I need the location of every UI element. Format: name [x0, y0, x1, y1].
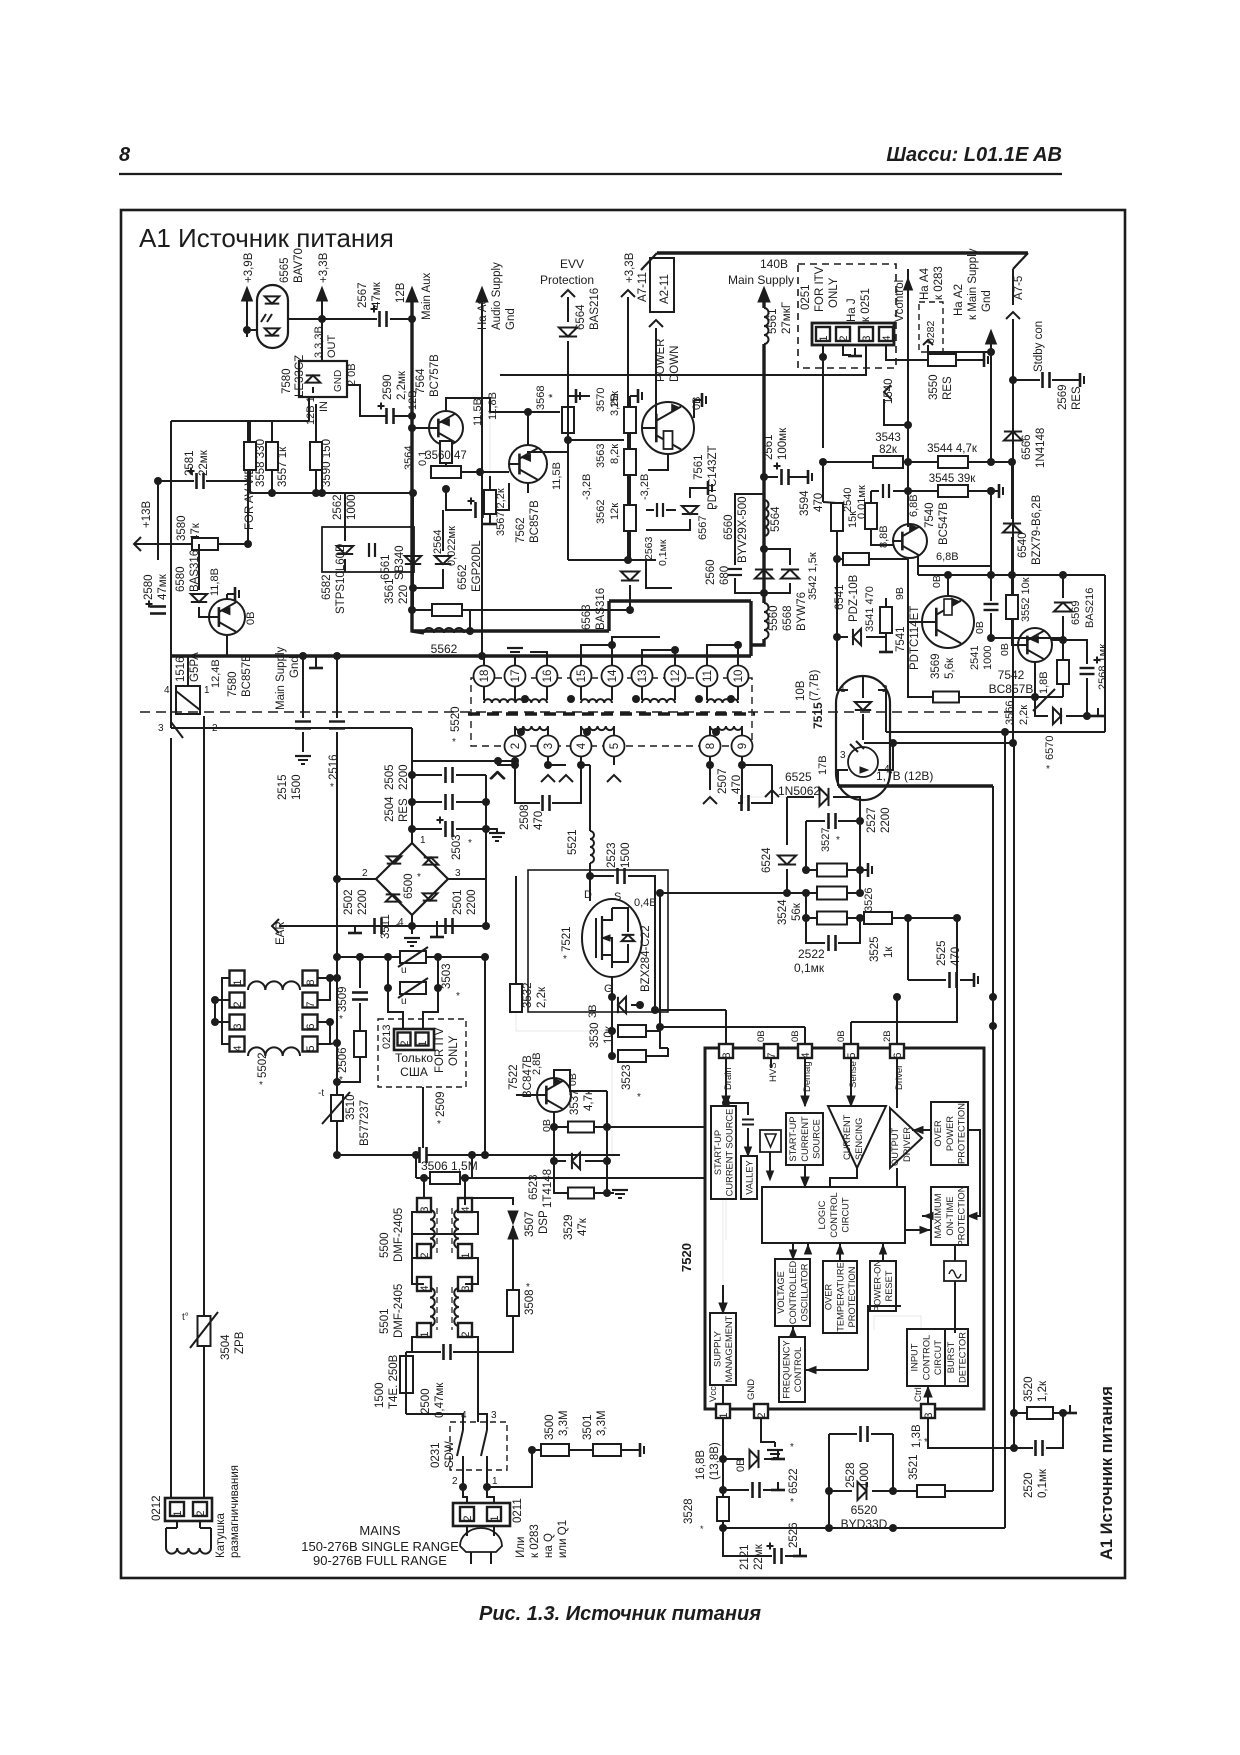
svg-text:7562: 7562	[515, 517, 527, 543]
thermistor 3504 ZPB	[198, 1316, 211, 1346]
svg-text:2: 2	[838, 335, 850, 341]
svg-text:Main Supply: Main Supply	[275, 646, 287, 710]
svg-text:LOGIC: LOGIC	[817, 1200, 827, 1229]
capacitor 2522 0,1mk	[806, 918, 825, 943]
svg-text:100мк: 100мк	[777, 427, 789, 460]
diode 6564 BAS216	[567, 297, 569, 322]
transformer core dashed bar	[468, 712, 755, 715]
svg-text:7564: 7564	[415, 368, 427, 394]
svg-text:Т4Е. 250В: Т4Е. 250В	[388, 1354, 400, 1409]
svg-text:Main Supply: Main Supply	[728, 273, 794, 287]
svg-text:BAS316: BAS316	[595, 588, 607, 630]
svg-text:5560: 5560	[768, 605, 780, 631]
diode 6524	[778, 856, 796, 865]
svg-text:6567: 6567	[697, 516, 709, 540]
svg-text:6570: 6570	[1044, 736, 1056, 760]
svg-text:EAR: EAR	[275, 921, 287, 945]
svg-text:3543: 3543	[875, 432, 901, 444]
svg-text:2504: 2504	[384, 796, 396, 822]
resistor 3552 10k	[1006, 595, 1018, 619]
svg-text:3563: 3563	[595, 444, 607, 468]
svg-text:0,4В: 0,4В	[634, 897, 657, 909]
svg-text:6566: 6566	[1021, 434, 1033, 460]
svg-text:3526: 3526	[863, 888, 875, 912]
svg-text:3570: 3570	[595, 388, 607, 412]
svg-text:DRIVER: DRIVER	[902, 1127, 912, 1162]
svg-text:0В: 0В	[836, 1030, 847, 1042]
svg-text:3 3,3В: 3 3,3В	[313, 326, 325, 358]
svg-text:3: 3	[460, 1285, 472, 1291]
wire 7515 pin2 loop	[885, 702, 887, 732]
svg-text:6524: 6524	[761, 847, 773, 873]
svg-text:OVER: OVER	[824, 1284, 834, 1311]
svg-text:0,1мк: 0,1мк	[1037, 1468, 1049, 1498]
wire +3,3B to regulator	[321, 299, 323, 361]
svg-text:6525: 6525	[785, 770, 812, 784]
svg-text:5564: 5564	[770, 506, 782, 532]
svg-text:140В: 140В	[760, 257, 788, 271]
svg-text:EVV: EVV	[560, 257, 584, 271]
svg-text:SOURCE: SOURCE	[811, 1119, 821, 1159]
svg-text:1,2к: 1,2к	[1037, 1380, 1049, 1402]
capacitor 2567 47mk	[378, 311, 381, 327]
svg-text:3,3М: 3,3М	[558, 1410, 570, 1436]
transistor 7561 PDTC143ZT	[642, 402, 694, 454]
svg-text:*: *	[714, 504, 718, 515]
svg-text:A2-11: A2-11	[659, 274, 671, 304]
resistor 3525 1k	[864, 912, 892, 924]
svg-text:3521: 3521	[908, 1454, 920, 1480]
svg-text:15: 15	[576, 670, 588, 683]
capacitor 2561 100mk	[764, 476, 778, 478]
svg-text:3541 470: 3541 470	[864, 586, 876, 632]
svg-text:2: 2	[399, 1040, 411, 1046]
svg-text:BAV70: BAV70	[293, 248, 305, 283]
svg-text:A7-5: A7-5	[1013, 276, 1025, 300]
svg-text:CONTROL: CONTROL	[793, 1347, 803, 1392]
svg-text:3520: 3520	[1023, 1376, 1035, 1402]
svg-text:2: 2	[362, 868, 368, 879]
svg-text:10: 10	[733, 670, 745, 683]
svg-text:5501: 5501	[379, 1308, 391, 1334]
wire to left rail	[246, 330, 248, 337]
svg-text:BZX79-B6,2В: BZX79-B6,2В	[1031, 494, 1043, 565]
svg-text:CONTROL: CONTROL	[829, 1192, 839, 1237]
svg-text:2,2к: 2,2к	[536, 986, 548, 1008]
IC 7520 outline	[705, 1048, 984, 1409]
svg-text:CONTROL: CONTROL	[921, 1335, 931, 1380]
svg-text:220: 220	[398, 585, 410, 604]
svg-text:6523: 6523	[528, 1174, 540, 1200]
sense wires to IC	[660, 893, 668, 1048]
svg-text:3564: 3564	[403, 446, 415, 470]
svg-text:BC547В: BC547В	[938, 502, 950, 545]
svg-text:5: 5	[609, 743, 621, 749]
svg-text:2: 2	[462, 1515, 474, 1521]
svg-text:DMF-2405: DMF-2405	[393, 1208, 405, 1262]
wire audio gnd bus	[481, 299, 483, 655]
svg-text:12к: 12к	[609, 503, 621, 520]
capacitor 2527 2200	[827, 813, 830, 829]
svg-text:7580: 7580	[281, 368, 293, 394]
snubber box around 7521	[528, 870, 668, 1012]
svg-text:POWER-ON: POWER-ON	[872, 1260, 882, 1312]
svg-text:6582: 6582	[321, 574, 333, 600]
wire 837 down to optocoupler	[836, 559, 838, 676]
capacitor 2564 0,022mk	[446, 489, 472, 510]
net Ha A8 Audio Supply Gnd	[476, 287, 488, 302]
svg-text:3562: 3562	[595, 500, 607, 524]
svg-text:SB340: SB340	[394, 545, 406, 580]
svg-text:POWER: POWER	[945, 1116, 955, 1151]
svg-text:3: 3	[840, 750, 846, 761]
svg-text:2569: 2569	[1057, 384, 1069, 410]
svg-text:TEMPERATURE: TEMPERATURE	[835, 1262, 845, 1332]
svg-text:6563: 6563	[581, 604, 593, 630]
svg-text:3: 3	[923, 1412, 935, 1418]
svg-text:4: 4	[881, 335, 893, 341]
svg-text:EGP20DL: EGP20DL	[471, 540, 483, 592]
svg-text:*: *	[637, 1092, 641, 1103]
connector 0211	[453, 1503, 510, 1526]
block input control circut	[907, 1329, 945, 1386]
svg-text:6569: 6569	[1070, 601, 1082, 625]
svg-text:Drain: Drain	[723, 1067, 734, 1090]
rect loop 6560	[735, 494, 764, 565]
capacitor 2568 1mk	[1063, 640, 1087, 664]
resistors 3558 3557 3590	[244, 442, 256, 470]
capacitor 2581 22mk	[158, 480, 194, 482]
svg-text:На J: На J	[846, 298, 858, 322]
secondary windings	[515, 726, 548, 730]
degauss coil	[176, 1521, 178, 1528]
svg-text:IN: IN	[318, 401, 330, 412]
svg-text:OVER: OVER	[933, 1120, 943, 1147]
svg-text:на Q: на Q	[543, 1533, 555, 1558]
diode 6562 EGP20DL	[435, 556, 451, 564]
svg-text:В577237: В577237	[359, 1100, 371, 1146]
svg-text:LE33CZ: LE33CZ	[294, 355, 306, 397]
wire +3,9B	[246, 299, 248, 330]
svg-text:RES: RES	[398, 798, 410, 822]
block valley	[741, 1156, 757, 1199]
wire emitter bus y638	[991, 637, 1063, 639]
capacitor 2580 47mk	[157, 544, 159, 560]
wires 7522	[554, 1070, 607, 1091]
svg-text:1,3В: 1,3В	[911, 1424, 923, 1448]
svg-text:3557 1к: 3557 1к	[277, 446, 289, 487]
svg-text:2562: 2562	[332, 494, 344, 520]
block logic control circut	[762, 1187, 905, 1243]
wires top secondary rails	[344, 493, 346, 527]
svg-text:PROTECTION: PROTECTION	[956, 1186, 966, 1247]
MOSFET 7521	[582, 899, 642, 977]
svg-text:3523: 3523	[621, 1064, 633, 1090]
wires bottom pins down	[514, 757, 516, 765]
svg-text:BC857В: BC857В	[989, 682, 1034, 696]
svg-text:Gnd: Gnd	[981, 290, 993, 312]
connector 0213	[394, 1029, 434, 1050]
svg-text:12В: 12В	[395, 282, 407, 303]
capacitor 2590 2,2mk	[385, 408, 388, 424]
svg-text:8: 8	[721, 1052, 733, 1058]
svg-text:2560: 2560	[705, 559, 717, 585]
svg-text:3580: 3580	[176, 515, 188, 541]
svg-text:OUTPUT: OUTPUT	[890, 1127, 900, 1166]
svg-text:16: 16	[542, 670, 554, 683]
rectifier box 6582 STPS10L60D	[322, 527, 414, 572]
svg-text:BC857В: BC857В	[241, 654, 253, 697]
svg-text:MAXIMUM: MAXIMUM	[933, 1194, 943, 1239]
junction 140B	[760, 473, 768, 481]
svg-text:9: 9	[737, 743, 749, 749]
svg-text:4,7к: 4,7к	[583, 1089, 595, 1111]
schematic frame A1	[121, 210, 1125, 1578]
block over power protection	[931, 1102, 968, 1165]
svg-text:1: 1	[420, 835, 426, 846]
svg-text:или Q1: или Q1	[557, 1520, 569, 1558]
svg-text:3530: 3530	[589, 1022, 601, 1048]
svg-text:DETECTOR: DETECTOR	[958, 1332, 968, 1383]
svg-text:BAS216: BAS216	[589, 288, 601, 330]
svg-text:7: 7	[305, 1001, 317, 1007]
svg-text:2 0В: 2 0В	[346, 363, 358, 386]
svg-text:*: *	[526, 1282, 530, 1293]
svg-text:u: u	[401, 996, 407, 1007]
wires to 0213	[388, 988, 403, 1029]
svg-text:5: 5	[846, 1052, 858, 1058]
svg-text:*: *	[700, 1524, 704, 1534]
svg-text:RES: RES	[942, 376, 954, 400]
svg-text:ONLY: ONLY	[828, 277, 840, 308]
svg-text:2509: 2509	[435, 1091, 447, 1117]
svg-text:1: 1	[172, 1510, 184, 1516]
bridge rectifier 6500	[376, 843, 448, 915]
wires bottom row merge	[568, 559, 656, 561]
rail x485 down	[484, 957, 486, 1155]
svg-text:11,5В: 11,5В	[472, 398, 484, 426]
svg-text:2581: 2581	[184, 450, 196, 476]
svg-text:3: 3	[491, 1410, 497, 1421]
diode 6569 BAS216	[1054, 603, 1072, 612]
svg-text:2503: 2503	[451, 834, 463, 860]
diode 6570	[1035, 697, 1048, 716]
svg-text:2505: 2505	[384, 764, 396, 790]
svg-text:START-UP: START-UP	[788, 1116, 798, 1161]
svg-text:6564: 6564	[575, 304, 587, 330]
right column verticals	[992, 786, 994, 1491]
svg-text:PDTC114ET: PDTC114ET	[909, 606, 921, 670]
svg-text:Demag: Demag	[802, 1061, 813, 1092]
svg-text:PROTECTION: PROTECTION	[847, 1267, 857, 1328]
svg-text:12,4В: 12,4В	[210, 659, 222, 688]
svg-text:*: *	[563, 954, 567, 965]
svg-text:2508: 2508	[519, 804, 531, 830]
svg-text:BAS316: BAS316	[189, 550, 201, 592]
svg-text:6,8В: 6,8В	[936, 551, 959, 563]
svg-text:Vcontrol: Vcontrol	[894, 280, 906, 322]
svg-text:4: 4	[576, 742, 588, 749]
svg-text:12В: 12В	[407, 390, 419, 410]
wires 5502 to bus x337	[330, 977, 337, 979]
svg-text:3511: 3511	[380, 914, 392, 939]
svg-text:5,6к: 5,6к	[944, 657, 956, 679]
svg-text:2528: 2528	[845, 1462, 857, 1488]
svg-text:3510: 3510	[345, 1094, 357, 1120]
block start-up current source 2	[786, 1113, 823, 1165]
svg-text:3566: 3566	[1004, 701, 1016, 725]
diode 6563 BAS316	[629, 531, 631, 545]
svg-text:2500: 2500	[420, 1388, 432, 1414]
svg-text:+3,3В: +3,3В	[318, 252, 330, 283]
svg-text:1500: 1500	[620, 842, 632, 868]
transistor 7542 BC857B	[1018, 628, 1052, 662]
svg-text:(13,8В): (13,8В)	[709, 1442, 721, 1480]
svg-text:5562: 5562	[431, 642, 458, 656]
IC bottom pins	[716, 1404, 730, 1418]
svg-text:6560: 6560	[723, 514, 735, 540]
svg-text:GND: GND	[333, 370, 344, 392]
resistor 3544 4,7k	[938, 456, 968, 468]
svg-text:0211: 0211	[512, 1498, 524, 1523]
bus y575	[917, 556, 919, 575]
rail x412	[411, 761, 413, 843]
varistor 3503	[387, 957, 389, 988]
svg-text:47к: 47к	[577, 1217, 589, 1236]
svg-text:PDZ-10В: PDZ-10В	[848, 574, 860, 622]
wires resistor bottoms to bus 493	[249, 470, 251, 493]
wires 7564	[412, 427, 429, 429]
diode 6580 BAS316	[198, 544, 200, 590]
svg-text:1: 1	[417, 1040, 429, 1046]
svg-text:2121: 2121	[739, 1544, 751, 1570]
svg-text:3569: 3569	[930, 653, 942, 679]
svg-text:3568: 3568	[535, 386, 547, 410]
wires optocoupler	[837, 676, 848, 690]
svg-text:+3,9В: +3,9В	[243, 252, 255, 283]
svg-text:к 0251: к 0251	[860, 288, 872, 322]
wires filters	[412, 1212, 424, 1284]
svg-text:ON-TIME: ON-TIME	[945, 1196, 955, 1235]
wires 0251	[822, 345, 824, 357]
svg-text:BYV29X-500: BYV29X-500	[737, 497, 749, 564]
svg-text:3537: 3537	[569, 1089, 581, 1115]
capacitor 2569 RES	[1013, 379, 1040, 381]
svg-text:u: u	[401, 965, 407, 976]
svg-text:США: США	[400, 1065, 428, 1079]
svg-text:Шасси: L01.1E AB: Шасси: L01.1E AB	[886, 144, 1062, 166]
dashed box 0251 FOR ITV ONLY	[798, 264, 896, 368]
svg-text:A1 Источник питания: A1 Источник питания	[139, 223, 394, 253]
wire vcontrol down	[907, 425, 909, 527]
resistor 3508	[507, 1290, 519, 1316]
svg-text:1Т4148: 1Т4148	[542, 1169, 554, 1208]
main sense bus y893	[660, 892, 806, 894]
svg-text:2567: 2567	[357, 282, 369, 308]
svg-text:82к: 82к	[879, 444, 898, 456]
svg-text:OSCILLATOR: OSCILLATOR	[799, 1263, 809, 1321]
svg-text:BAS216: BAS216	[1084, 588, 1096, 628]
wire 824 rail down2	[822, 462, 824, 502]
svg-text:7561: 7561	[693, 454, 705, 480]
svg-text:ONLY: ONLY	[448, 1035, 460, 1066]
spark gap 3507 DSP	[465, 1198, 513, 1205]
svg-text:1500: 1500	[374, 1382, 386, 1408]
svg-text:27мкГ: 27мкГ	[781, 301, 793, 334]
svg-text:680: 680	[719, 566, 731, 585]
svg-text:150-276В SINGLE RANGE: 150-276В SINGLE RANGE	[301, 1539, 459, 1554]
svg-text:2200: 2200	[357, 889, 369, 915]
primary windings	[484, 699, 547, 703]
svg-text:S: S	[614, 891, 621, 903]
svg-text:4: 4	[164, 685, 170, 696]
svg-text:2502: 2502	[343, 889, 355, 915]
svg-text:1000: 1000	[346, 494, 358, 520]
svg-text:Ctrl: Ctrl	[913, 1387, 924, 1402]
svg-text:BURST: BURST	[946, 1341, 956, 1373]
bus y957	[337, 956, 485, 958]
svg-text:3500: 3500	[544, 1414, 556, 1440]
svg-text:SENCING: SENCING	[854, 1118, 864, 1160]
block start-up current source	[711, 1106, 736, 1199]
svg-text:1N4148: 1N4148	[1035, 428, 1047, 468]
svg-text:5500: 5500	[379, 1232, 391, 1258]
svg-text:3509: 3509	[337, 986, 349, 1012]
svg-text:3508: 3508	[524, 1289, 536, 1315]
bottom bus	[723, 1527, 1005, 1529]
svg-text:47мк: 47мк	[371, 281, 383, 308]
svg-text:10В: 10В	[795, 680, 807, 701]
capacitor 2541 1000	[984, 603, 999, 605]
svg-text:1516: 1516	[175, 656, 187, 682]
svg-text:VALLEY: VALLEY	[744, 1160, 754, 1194]
block sawtooth	[944, 1261, 966, 1281]
wire drain to IC	[655, 1009, 726, 1011]
wire reg in down	[308, 397, 310, 421]
svg-text:HVS: HVS	[768, 1062, 779, 1082]
svg-text:4: 4	[232, 1045, 244, 1051]
svg-text:2: 2	[232, 1001, 244, 1007]
svg-text:*: *	[330, 782, 334, 793]
wire reg out	[347, 385, 386, 416]
svg-text:*: *	[339, 1014, 343, 1025]
svg-text:1: 1	[204, 685, 210, 696]
svg-text:FOR ITV: FOR ITV	[814, 266, 826, 312]
isolation dashed line	[140, 711, 1012, 713]
svg-text:13: 13	[637, 670, 649, 683]
svg-text:2В: 2В	[882, 1030, 893, 1042]
svg-text:CIRCUT: CIRCUT	[840, 1197, 850, 1232]
svg-text:1: 1	[718, 1412, 730, 1418]
svg-text:CONTROLLED: CONTROLLED	[788, 1260, 798, 1324]
svg-text:PROTECTION: PROTECTION	[956, 1103, 966, 1164]
svg-text:Или: Или	[515, 1537, 527, 1558]
svg-text:t°: t°	[182, 1312, 189, 1323]
dashed box 0282	[919, 302, 943, 352]
svg-text:2522: 2522	[798, 947, 825, 961]
wire Main Aux bus	[412, 299, 424, 633]
wire mosfet source down	[611, 977, 613, 1010]
diode 6522	[723, 1458, 744, 1460]
inductor 5562	[424, 628, 464, 633]
svg-text:*: *	[437, 1119, 441, 1130]
inductor 5561 27mkG	[762, 299, 765, 308]
bus y761 EAR	[171, 727, 412, 729]
svg-text:DMF-2405: DMF-2405	[393, 1284, 405, 1338]
svg-text:11,8В: 11,8В	[487, 392, 499, 420]
svg-text:2507: 2507	[717, 768, 729, 794]
svg-text:FOR ITV: FOR ITV	[434, 1027, 446, 1073]
